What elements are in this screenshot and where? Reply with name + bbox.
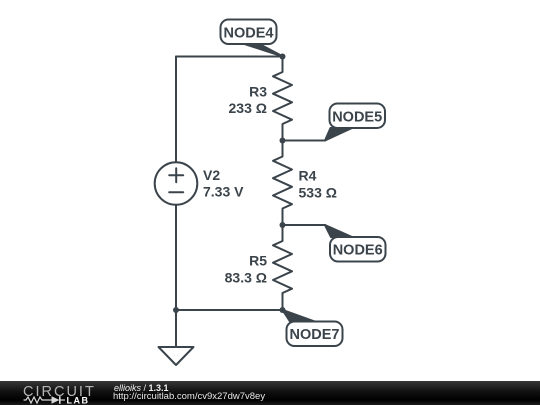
node A junction top [280, 54, 286, 60]
voltage source V2 [155, 162, 198, 205]
node D junction bottom-right [280, 307, 286, 313]
resistor R3 [273, 57, 292, 141]
resistor R4 [273, 141, 292, 226]
label V2 value [203, 167, 244, 200]
svg-text:7.33 V: 7.33 V [203, 184, 244, 200]
svg-text:NODE6: NODE6 [333, 243, 383, 259]
CircuitLab logo [20, 383, 100, 405]
svg-text:NODE7: NODE7 [290, 327, 340, 343]
svg-text:533 Ω: 533 Ω [299, 185, 337, 201]
wire left vertical upper [175, 57, 177, 163]
author and version text [114, 383, 169, 393]
node NODE4 flag [221, 20, 284, 57]
svg-text:83.3 Ω: 83.3 Ω [225, 270, 267, 286]
wire node5 stub [283, 140, 326, 142]
svg-text:NODE4: NODE4 [224, 26, 274, 42]
node NODE7 flag [283, 310, 343, 346]
svg-text:233 Ω: 233 Ω [229, 100, 267, 116]
svg-text:NODE5: NODE5 [332, 110, 382, 126]
svg-text:R4: R4 [299, 168, 317, 184]
label R5 value [225, 253, 268, 286]
wire top horizontal [176, 56, 283, 58]
resistor R5 [273, 225, 292, 310]
node NODE6 flag [325, 225, 386, 262]
wire node6 stub [283, 224, 326, 226]
wire bottom horizontal [176, 309, 283, 311]
node E junction bottom-left [173, 307, 179, 313]
bottom credit bar [0, 381, 540, 405]
node C junction [280, 222, 286, 228]
svg-text:V2: V2 [203, 167, 220, 183]
svg-text:R3: R3 [249, 84, 267, 100]
wire left vertical lower [175, 205, 177, 310]
ground [159, 310, 194, 365]
label R3 value [229, 84, 268, 117]
label R4 value [299, 168, 337, 201]
svg-text:R5: R5 [249, 253, 267, 269]
schematic url [113, 392, 265, 402]
node B junction [280, 138, 286, 144]
svg-text:LAB: LAB [67, 395, 90, 405]
node NODE5 flag [325, 104, 385, 141]
